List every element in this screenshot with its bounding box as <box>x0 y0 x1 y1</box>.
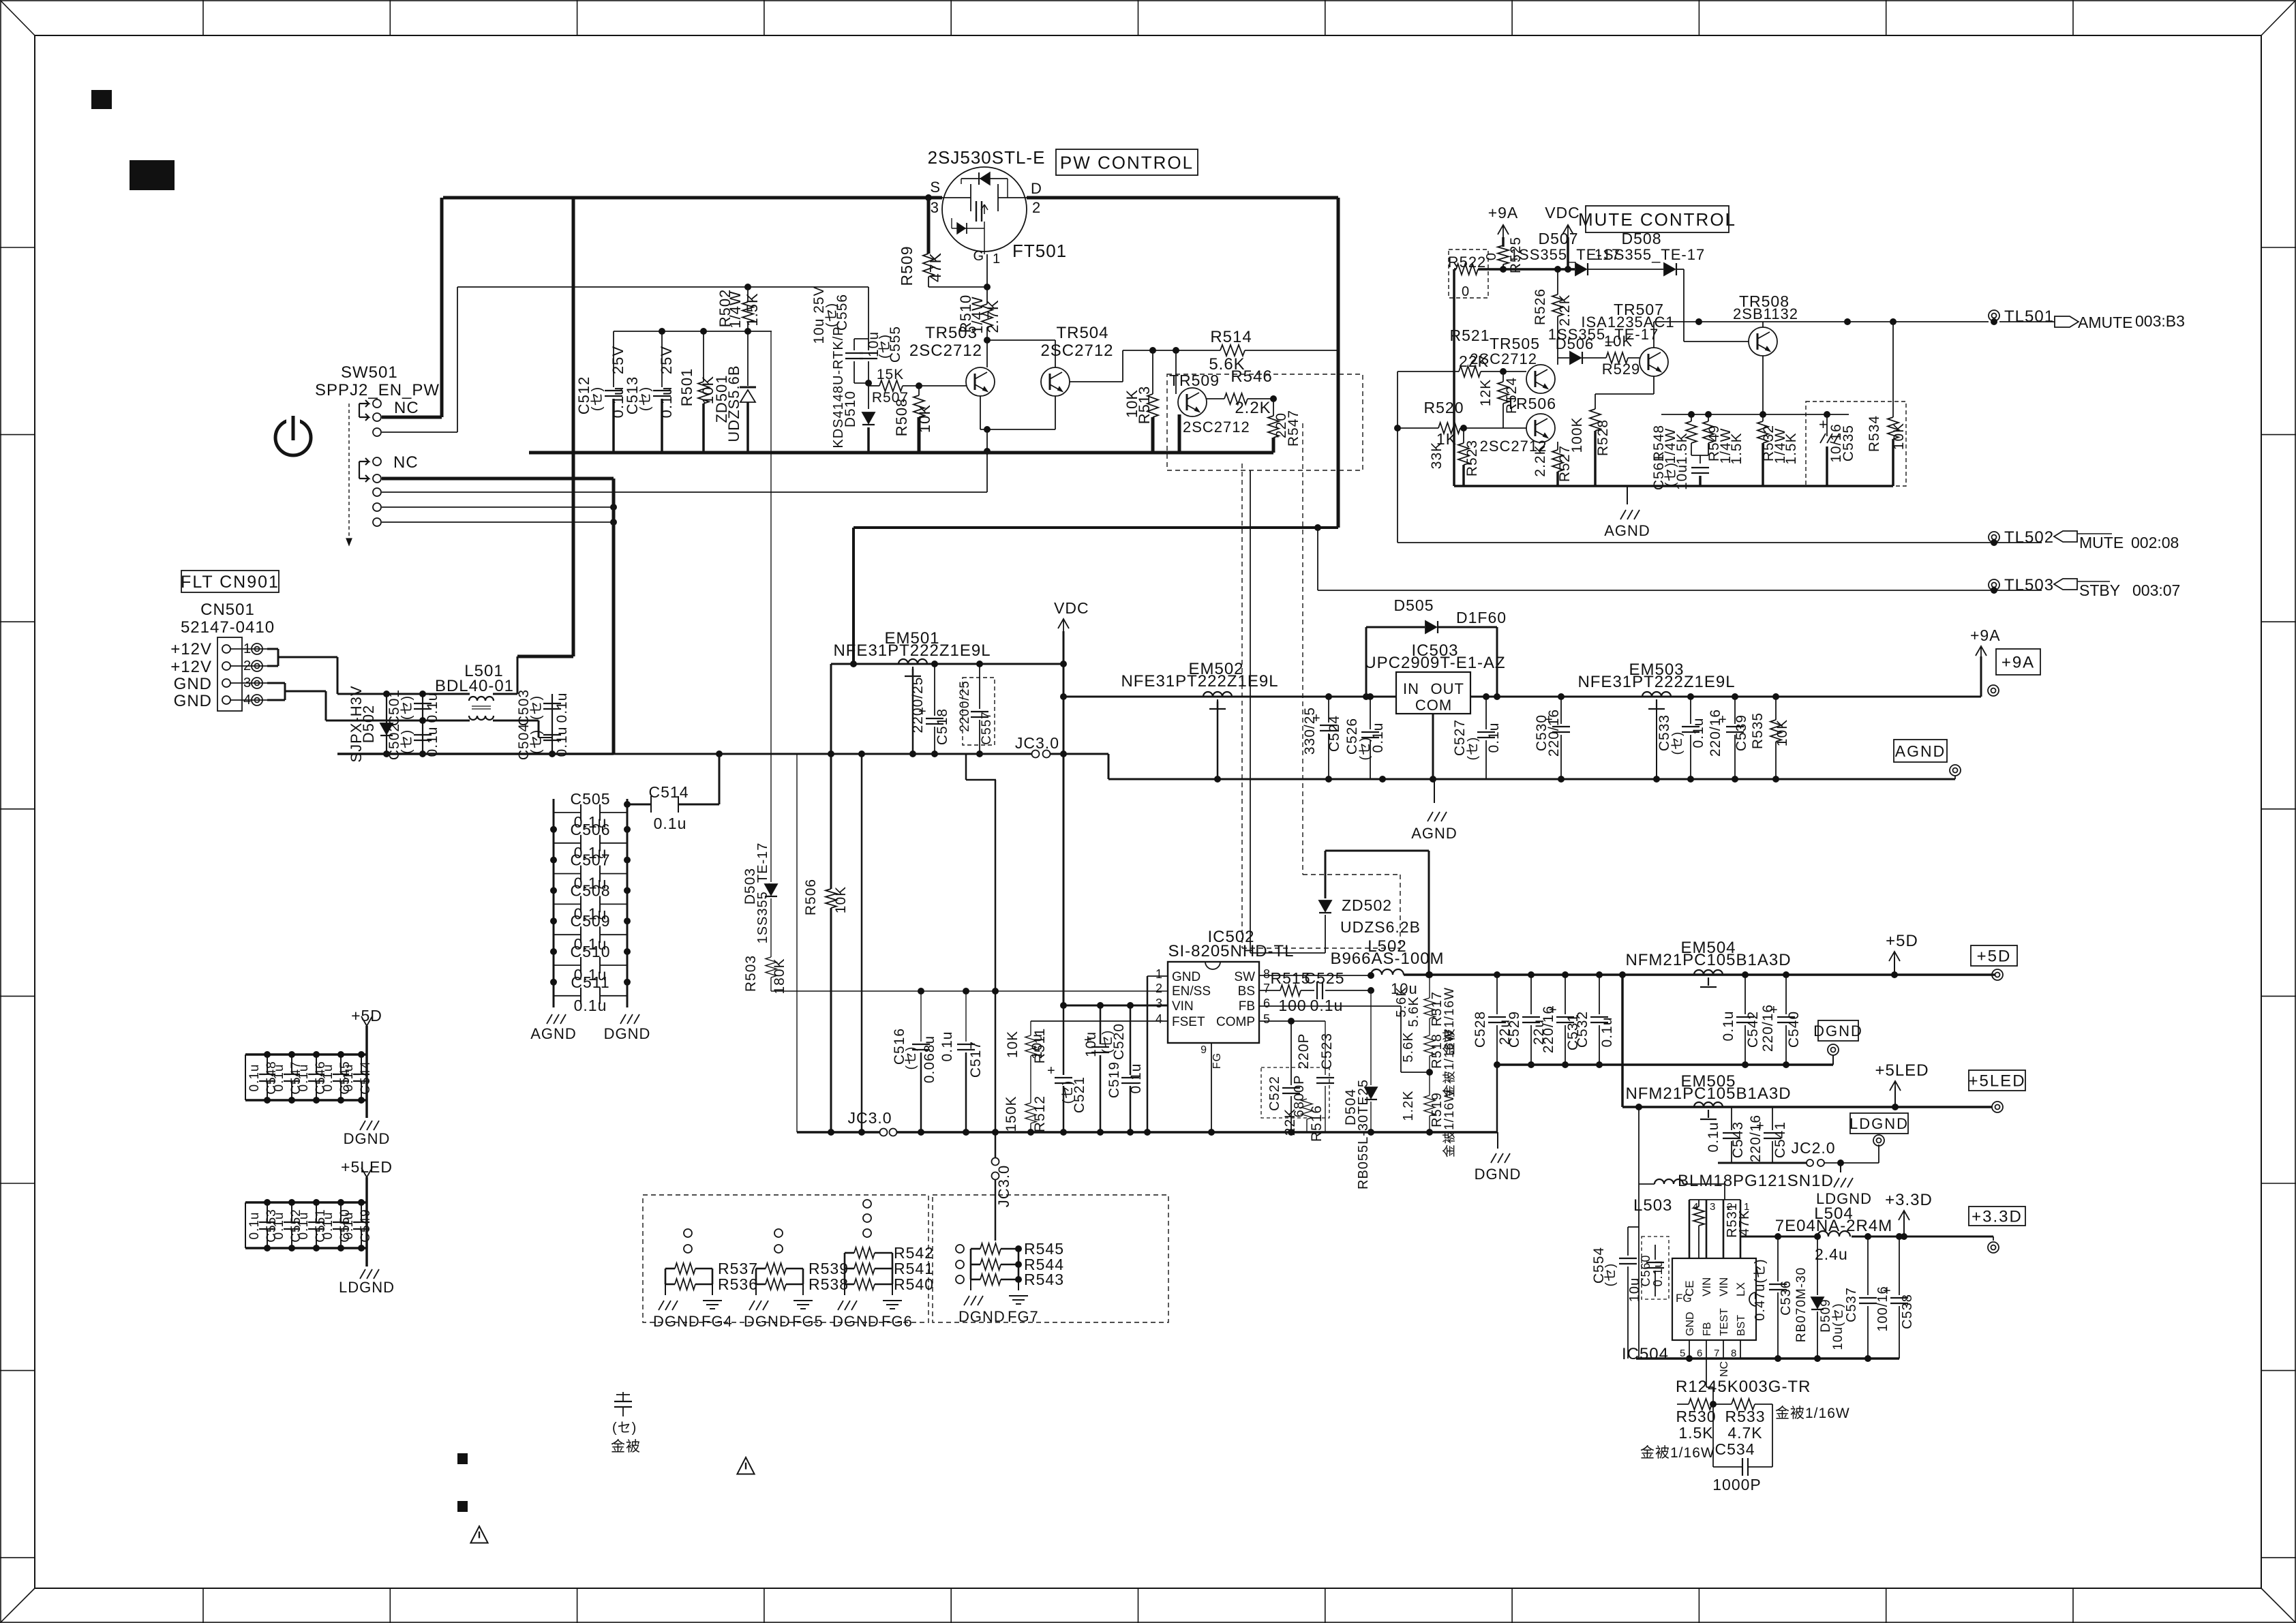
svg-text:2: 2 <box>1155 982 1163 995</box>
svg-text:10K: 10K <box>1774 719 1790 746</box>
svg-text:UDZS6.2B: UDZS6.2B <box>1340 918 1421 936</box>
svg-text:0.1u: 0.1u <box>1691 718 1706 748</box>
svg-text:0.1u: 0.1u <box>321 1064 335 1092</box>
svg-text:NC: NC <box>394 399 419 417</box>
svg-text:JC3.0: JC3.0 <box>1015 734 1059 752</box>
svg-text:R509: R509 <box>898 246 916 286</box>
svg-text:0.1u: 0.1u <box>1651 1260 1665 1286</box>
svg-text:VIN: VIN <box>1717 1277 1730 1296</box>
svg-text:R536: R536 <box>718 1275 758 1293</box>
svg-text:LDGND: LDGND <box>1849 1115 1909 1132</box>
svg-text:1.5K: 1.5K <box>1729 432 1744 464</box>
svg-text:C540: C540 <box>1786 1011 1802 1048</box>
svg-text:TEST: TEST <box>1719 1308 1730 1336</box>
svg-text:100: 100 <box>1278 997 1306 1014</box>
svg-text:1.5K: 1.5K <box>1674 432 1690 464</box>
svg-text:(セ): (セ) <box>1670 731 1685 755</box>
svg-text:003:B3: 003:B3 <box>2135 312 2185 330</box>
svg-text:10u: 10u <box>1083 1031 1099 1057</box>
svg-text:FG7: FG7 <box>1008 1308 1039 1325</box>
svg-text:D1F60: D1F60 <box>1456 609 1507 626</box>
svg-text:AGND: AGND <box>1604 522 1650 539</box>
svg-text:LDGND: LDGND <box>339 1279 395 1296</box>
svg-text:G: G <box>973 249 984 264</box>
svg-text:1/4W: 1/4W <box>727 290 744 328</box>
svg-text:7: 7 <box>1263 982 1271 995</box>
svg-text:2SJ530STL-E: 2SJ530STL-E <box>928 147 1046 168</box>
svg-text:AGND: AGND <box>1895 742 1946 760</box>
svg-text:LX: LX <box>1734 1282 1747 1296</box>
svg-text:FG: FG <box>1676 1292 1692 1305</box>
svg-text:NFE31PT222Z1E9L: NFE31PT222Z1E9L <box>833 641 991 660</box>
svg-text:+: + <box>1819 416 1828 433</box>
svg-text:C510: C510 <box>571 943 611 960</box>
svg-text:1SS355_TE-17: 1SS355_TE-17 <box>755 843 770 944</box>
svg-text:BDL40-01: BDL40-01 <box>435 677 514 695</box>
svg-text:R524: R524 <box>1504 377 1520 414</box>
svg-text:6: 6 <box>1263 997 1271 1010</box>
svg-text:22K: 22K <box>1459 352 1489 370</box>
svg-text:R512: R512 <box>1032 1095 1048 1132</box>
svg-text:TL501: TL501 <box>2004 307 2054 326</box>
svg-text:C557: C557 <box>980 711 994 744</box>
svg-text:0.1u: 0.1u <box>425 727 440 757</box>
svg-text:10K: 10K <box>916 404 933 433</box>
svg-text:1.5K: 1.5K <box>1678 1424 1713 1442</box>
svg-text:C521: C521 <box>1072 1076 1087 1113</box>
svg-text:330/25: 330/25 <box>1302 707 1318 755</box>
svg-text:0.1u: 0.1u <box>342 1064 356 1092</box>
svg-text:R506: R506 <box>803 879 819 915</box>
svg-text:+5LED: +5LED <box>1875 1061 1929 1080</box>
svg-text:0.1u: 0.1u <box>658 386 675 419</box>
svg-text:R530: R530 <box>1676 1408 1717 1425</box>
svg-text:+12V: +12V <box>170 640 212 658</box>
svg-text:R503: R503 <box>743 955 759 992</box>
svg-text:OUT: OUT <box>1431 680 1464 697</box>
svg-text:2: 2 <box>1032 199 1041 216</box>
svg-text:0.1u: 0.1u <box>654 815 687 832</box>
svg-text:+9A: +9A <box>1488 204 1519 222</box>
svg-text:FB: FB <box>1702 1322 1713 1336</box>
svg-text:TL502: TL502 <box>2004 528 2054 547</box>
svg-text:C505: C505 <box>571 790 611 808</box>
svg-text:C538: C538 <box>1900 1294 1915 1329</box>
svg-text:0.1u: 0.1u <box>321 1212 335 1240</box>
svg-text:JC3.0: JC3.0 <box>847 1109 892 1127</box>
svg-text:0.47u(セ): 0.47u(セ) <box>1753 1258 1768 1320</box>
svg-text:+5LED: +5LED <box>1968 1072 2025 1091</box>
svg-text:R546: R546 <box>1230 367 1272 386</box>
svg-text:0.1u: 0.1u <box>1128 1063 1144 1094</box>
svg-text:AGND: AGND <box>530 1025 577 1042</box>
svg-text:FLT CN901: FLT CN901 <box>181 573 280 592</box>
svg-text:C522: C522 <box>1267 1076 1282 1111</box>
svg-text:R533: R533 <box>1725 1408 1766 1425</box>
svg-text:R501: R501 <box>678 368 695 407</box>
svg-text:+5D: +5D <box>1977 947 2012 966</box>
svg-text:C537: C537 <box>1844 1287 1859 1322</box>
svg-text:R1245K003G-TR: R1245K003G-TR <box>1676 1378 1811 1396</box>
svg-text:R520: R520 <box>1424 399 1464 416</box>
svg-text:EN/SS: EN/SS <box>1172 984 1211 999</box>
svg-text:BST: BST <box>1736 1315 1747 1336</box>
svg-text:DGND: DGND <box>832 1313 879 1330</box>
svg-text:COMP: COMP <box>1216 1015 1255 1029</box>
svg-text:DGND: DGND <box>344 1130 391 1147</box>
svg-text:C541: C541 <box>1772 1121 1788 1158</box>
svg-text:10K: 10K <box>1604 333 1633 350</box>
svg-text:FB: FB <box>1239 999 1255 1014</box>
svg-text:VIN: VIN <box>1172 999 1194 1014</box>
svg-text:15K: 15K <box>877 367 904 382</box>
svg-text:UPC2909T-E1-AZ: UPC2909T-E1-AZ <box>1364 654 1505 672</box>
svg-text:10K: 10K <box>1005 1031 1021 1058</box>
svg-text:150K: 150K <box>1003 1095 1019 1132</box>
svg-text:金被1/16W: 金被1/16W <box>1640 1445 1715 1461</box>
svg-text:DGND: DGND <box>958 1308 1006 1325</box>
svg-text:(セ): (セ) <box>590 386 605 411</box>
svg-text:TR504: TR504 <box>1056 324 1108 342</box>
svg-text:+12V: +12V <box>170 658 212 676</box>
svg-text:SW: SW <box>1234 970 1255 984</box>
svg-text:C520: C520 <box>1111 1023 1127 1060</box>
svg-text:+: + <box>1047 1063 1056 1078</box>
svg-text:金被: 金被 <box>611 1439 641 1455</box>
svg-text:0.1u: 0.1u <box>247 1212 262 1240</box>
svg-text:5: 5 <box>1263 1012 1271 1026</box>
svg-text:(セ): (セ) <box>638 386 653 411</box>
svg-text:180K: 180K <box>772 958 787 994</box>
svg-text:R514: R514 <box>1210 328 1252 346</box>
svg-text:2SB1132: 2SB1132 <box>1733 305 1798 322</box>
svg-text:1.5K: 1.5K <box>1783 432 1799 464</box>
svg-text:RB070M-30: RB070M-30 <box>1794 1267 1809 1342</box>
svg-text:金被1/16W: 金被1/16W <box>1442 1089 1457 1157</box>
svg-text:SW501: SW501 <box>341 363 398 382</box>
svg-text:3: 3 <box>931 199 939 216</box>
svg-text:0.1u: 0.1u <box>1599 1017 1615 1048</box>
svg-text:TR509: TR509 <box>1169 371 1220 389</box>
svg-text:1.5K: 1.5K <box>744 292 761 326</box>
svg-text:10u: 10u <box>1029 1033 1045 1059</box>
svg-text:FSET: FSET <box>1172 1015 1205 1029</box>
svg-text:R529: R529 <box>1602 361 1641 378</box>
svg-text:4.7K: 4.7K <box>1727 1424 1762 1442</box>
svg-text:0.1u: 0.1u <box>297 1064 311 1092</box>
svg-text:PW CONTROL: PW CONTROL <box>1060 152 1194 172</box>
svg-text:0.1u: 0.1u <box>272 1212 286 1240</box>
svg-text:47K: 47K <box>926 252 944 282</box>
svg-text:GND: GND <box>174 692 212 710</box>
svg-text:IC504: IC504 <box>1622 1345 1669 1363</box>
svg-text:C543: C543 <box>1730 1121 1746 1158</box>
svg-text:47K: 47K <box>1737 1210 1752 1237</box>
svg-text:C508: C508 <box>571 881 611 899</box>
svg-text:R516: R516 <box>1309 1105 1325 1142</box>
svg-text:(セ): (セ) <box>904 1046 918 1070</box>
svg-text:FG4: FG4 <box>701 1313 733 1330</box>
svg-text:52147-0410: 52147-0410 <box>181 618 275 637</box>
svg-text:DGND: DGND <box>744 1313 791 1330</box>
svg-text:VIN: VIN <box>1700 1277 1713 1296</box>
svg-text:220/16: 220/16 <box>1546 709 1562 757</box>
svg-text:金被1/16W: 金被1/16W <box>1442 1029 1457 1097</box>
svg-text:AGND: AGND <box>1411 825 1457 842</box>
svg-text:(セ): (セ) <box>529 695 544 720</box>
svg-text:220/16: 220/16 <box>1708 709 1723 757</box>
svg-text:0: 0 <box>1462 284 1470 299</box>
svg-text:2SC2712: 2SC2712 <box>1040 342 1113 360</box>
svg-text:+5LED: +5LED <box>341 1158 393 1176</box>
svg-text:8: 8 <box>1263 967 1271 981</box>
svg-text:0.1u: 0.1u <box>1721 1011 1736 1042</box>
svg-text:3: 3 <box>1710 1201 1716 1213</box>
svg-text:金被1/16W: 金被1/16W <box>1775 1406 1850 1421</box>
svg-text:0.1u: 0.1u <box>272 1064 286 1092</box>
svg-text:NFM21PC105B1A3D: NFM21PC105B1A3D <box>1625 951 1791 969</box>
svg-text:GND: GND <box>174 675 212 693</box>
svg-text:0.1u: 0.1u <box>1706 1122 1721 1153</box>
svg-text:JC2.0: JC2.0 <box>1791 1139 1835 1157</box>
svg-text:1SS355_TE-17: 1SS355_TE-17 <box>1595 246 1705 263</box>
svg-text:R527: R527 <box>1557 445 1573 482</box>
svg-text:D: D <box>1031 180 1042 197</box>
svg-text:+3.3D: +3.3D <box>1885 1191 1933 1209</box>
svg-text:NC: NC <box>393 453 419 472</box>
svg-text:R543: R543 <box>1024 1271 1064 1288</box>
svg-text:IN: IN <box>1403 680 1419 697</box>
svg-text:FG5: FG5 <box>792 1313 824 1330</box>
svg-text:C560: C560 <box>1639 1254 1652 1286</box>
svg-text:2200/25: 2200/25 <box>958 680 972 732</box>
svg-text:R526: R526 <box>1532 288 1548 325</box>
svg-text:GND: GND <box>1685 1311 1696 1336</box>
svg-text:1: 1 <box>993 252 1001 267</box>
svg-text:220P: 220P <box>1296 1033 1312 1069</box>
svg-text:R534: R534 <box>1867 415 1882 452</box>
svg-text:NFM21PC105B1A3D: NFM21PC105B1A3D <box>1625 1084 1791 1103</box>
svg-text:C534: C534 <box>1715 1440 1755 1458</box>
svg-text:9: 9 <box>1200 1044 1207 1056</box>
svg-text:C511: C511 <box>571 973 609 991</box>
svg-text:C514: C514 <box>649 783 689 801</box>
svg-text:S: S <box>930 179 941 196</box>
svg-text:0.1u: 0.1u <box>554 727 570 757</box>
svg-text:(セ): (セ) <box>399 695 414 720</box>
svg-text:R507: R507 <box>872 390 909 406</box>
svg-text:+9A: +9A <box>1970 626 2001 644</box>
svg-text:UDZS5.6B: UDZS5.6B <box>725 365 742 442</box>
svg-text:MUTE: MUTE <box>2079 534 2124 551</box>
svg-text:C507: C507 <box>571 851 611 869</box>
svg-text:D508: D508 <box>1622 230 1662 247</box>
svg-text:1000P: 1000P <box>1712 1476 1762 1493</box>
svg-text:220/16: 220/16 <box>1541 1005 1556 1053</box>
svg-text:2.4u: 2.4u <box>1815 1245 1848 1263</box>
svg-text:C529: C529 <box>1507 1011 1522 1048</box>
svg-text:7E04NA-2R4M: 7E04NA-2R4M <box>1775 1217 1892 1235</box>
svg-text:25V: 25V <box>658 346 675 374</box>
svg-text:ZD502: ZD502 <box>1342 896 1392 914</box>
svg-text:10K: 10K <box>833 886 849 913</box>
svg-text:AMUTE: AMUTE <box>2078 314 2133 331</box>
svg-text:003:07: 003:07 <box>2132 581 2180 599</box>
svg-text:C555: C555 <box>888 326 903 363</box>
svg-text:C556: C556 <box>834 294 850 331</box>
svg-text:2SC2712: 2SC2712 <box>909 342 982 360</box>
svg-text:C525: C525 <box>1305 969 1345 987</box>
svg-text:C518: C518 <box>935 708 950 745</box>
svg-text:12K: 12K <box>1478 379 1494 406</box>
svg-text:DGND: DGND <box>604 1025 651 1042</box>
svg-text:0.1u: 0.1u <box>939 1031 955 1062</box>
svg-text:C519: C519 <box>1106 1061 1122 1098</box>
svg-text:+5D: +5D <box>1886 932 1918 950</box>
svg-text:0.1u: 0.1u <box>425 693 440 723</box>
svg-text:R513: R513 <box>1136 386 1153 425</box>
svg-text:D510: D510 <box>843 391 858 427</box>
svg-text:VDC: VDC <box>1054 599 1089 617</box>
svg-text:C535: C535 <box>1841 425 1856 461</box>
svg-text:(セ): (セ) <box>1603 1263 1618 1287</box>
svg-text:+5D: +5D <box>351 1007 382 1025</box>
svg-text:10u(セ): 10u(セ) <box>1831 1303 1845 1350</box>
svg-text:0.1u: 0.1u <box>574 997 607 1014</box>
svg-text:0.1u: 0.1u <box>247 1064 262 1092</box>
svg-text:FG6: FG6 <box>881 1313 913 1330</box>
svg-text:C509: C509 <box>571 912 611 930</box>
svg-text:220/16: 220/16 <box>1760 1004 1776 1052</box>
svg-text:SI-8205NHD-TL: SI-8205NHD-TL <box>1168 942 1294 960</box>
svg-text:FG: FG <box>1211 1052 1223 1069</box>
svg-text:2.2K: 2.2K <box>1557 294 1573 326</box>
svg-text:(セ): (セ) <box>399 729 414 754</box>
svg-text:5.6K: 5.6K <box>1401 1031 1416 1062</box>
svg-text:C542: C542 <box>1745 1011 1761 1048</box>
svg-text:CN501: CN501 <box>200 601 255 619</box>
svg-text:C536: C536 <box>1779 1280 1794 1316</box>
svg-text:R547: R547 <box>1286 410 1301 446</box>
svg-text:+3.3D: +3.3D <box>1972 1208 2023 1226</box>
svg-text:GND: GND <box>1172 970 1200 984</box>
svg-text:NFE31PT222Z1E9L: NFE31PT222Z1E9L <box>1577 673 1735 691</box>
svg-text:(セ): (セ) <box>612 1421 637 1436</box>
svg-text:TR503: TR503 <box>925 324 978 342</box>
svg-text:VDC: VDC <box>1545 204 1580 222</box>
svg-text:NC: NC <box>1719 1361 1730 1377</box>
svg-text:(セ): (セ) <box>1466 737 1480 761</box>
svg-text:0.1u: 0.1u <box>1370 723 1386 753</box>
svg-text:5.6K: 5.6K <box>1406 996 1421 1027</box>
svg-text:3: 3 <box>1155 997 1163 1010</box>
svg-text:DGND: DGND <box>1475 1166 1522 1183</box>
svg-text:0.1u: 0.1u <box>342 1212 356 1240</box>
svg-text:R535: R535 <box>1750 712 1766 749</box>
svg-text:MUTE CONTROL: MUTE CONTROL <box>1578 209 1736 230</box>
svg-text:002:08: 002:08 <box>2131 534 2179 551</box>
svg-text:R523: R523 <box>1464 440 1480 476</box>
svg-text:R521: R521 <box>1450 327 1490 344</box>
svg-text:STBY: STBY <box>2079 581 2120 599</box>
svg-text:C524: C524 <box>1327 715 1342 752</box>
svg-text:0: 0 <box>1484 252 1499 260</box>
svg-text:BS: BS <box>1238 984 1255 999</box>
svg-text:JC3.0: JC3.0 <box>995 1165 1012 1207</box>
svg-text:2SC2712: 2SC2712 <box>1183 419 1250 436</box>
svg-text:C539: C539 <box>1734 714 1749 751</box>
svg-text:DGND: DGND <box>653 1313 700 1330</box>
svg-text:TL503: TL503 <box>2004 576 2054 594</box>
svg-text:C528: C528 <box>1472 1011 1488 1048</box>
svg-text:0.1u: 0.1u <box>1310 997 1344 1014</box>
svg-text:C523: C523 <box>1319 1033 1335 1070</box>
svg-text:SJPX-H3V: SJPX-H3V <box>348 685 365 762</box>
svg-text:D507: D507 <box>1539 230 1579 247</box>
svg-text:NFE31PT222Z1E9L: NFE31PT222Z1E9L <box>1121 672 1278 691</box>
svg-text:R538: R538 <box>809 1275 849 1293</box>
svg-text:B966AS-100M: B966AS-100M <box>1330 950 1444 968</box>
svg-text:C532: C532 <box>1575 1011 1590 1048</box>
svg-text:33K: 33K <box>1429 442 1445 469</box>
svg-text:R540: R540 <box>894 1275 934 1293</box>
svg-text:DGND: DGND <box>1813 1022 1863 1040</box>
svg-text:C506: C506 <box>571 821 611 838</box>
svg-text:0.1u: 0.1u <box>1486 723 1502 753</box>
svg-text:4: 4 <box>1155 1012 1163 1026</box>
svg-text:100/16: 100/16 <box>1875 1286 1890 1331</box>
svg-text:BLM18PG121SN1D: BLM18PG121SN1D <box>1678 1172 1834 1190</box>
svg-text:2.7K: 2.7K <box>984 299 1001 333</box>
svg-text:0.068u: 0.068u <box>922 1035 937 1083</box>
svg-text:2.2K: 2.2K <box>1235 399 1271 417</box>
svg-text:D505: D505 <box>1394 596 1434 614</box>
svg-text:(セ): (セ) <box>529 729 544 754</box>
svg-text:1: 1 <box>1155 967 1163 981</box>
svg-text:220/16: 220/16 <box>1748 1114 1764 1162</box>
svg-text:C517: C517 <box>968 1041 984 1078</box>
svg-text:SPPJ2_EN_PW: SPPJ2_EN_PW <box>315 381 440 399</box>
svg-text:KDS4148U-RTK/P: KDS4148U-RTK/P <box>831 326 846 448</box>
svg-text:1.2K: 1.2K <box>1401 1090 1416 1121</box>
svg-text:FT501: FT501 <box>1012 241 1067 261</box>
svg-text:COM: COM <box>1415 697 1452 714</box>
svg-text:2.2K: 2.2K <box>1532 444 1548 476</box>
svg-text:+9A: +9A <box>2002 654 2035 672</box>
svg-text:0.1u: 0.1u <box>554 693 570 723</box>
svg-text:R528: R528 <box>1595 419 1611 456</box>
svg-text:0.1u: 0.1u <box>297 1212 311 1240</box>
svg-text:25V: 25V <box>609 346 626 374</box>
